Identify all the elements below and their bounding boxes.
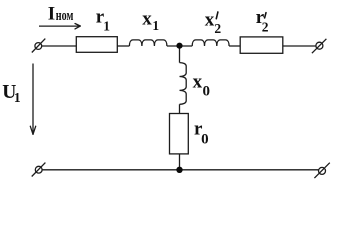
svg-text:1: 1 [152, 18, 159, 33]
svg-text:x: x [205, 10, 215, 31]
svg-text:2: 2 [214, 21, 221, 36]
svg-text:I: I [48, 4, 55, 25]
svg-text:0: 0 [201, 131, 209, 147]
svg-text:ном: ном [56, 8, 74, 24]
svg-text:1: 1 [14, 90, 21, 105]
svg-text:x: x [193, 71, 203, 92]
svg-text:2: 2 [262, 19, 269, 34]
svg-text:1: 1 [103, 18, 110, 33]
svg-text:0: 0 [203, 83, 211, 99]
svg-text:x: x [142, 8, 152, 29]
